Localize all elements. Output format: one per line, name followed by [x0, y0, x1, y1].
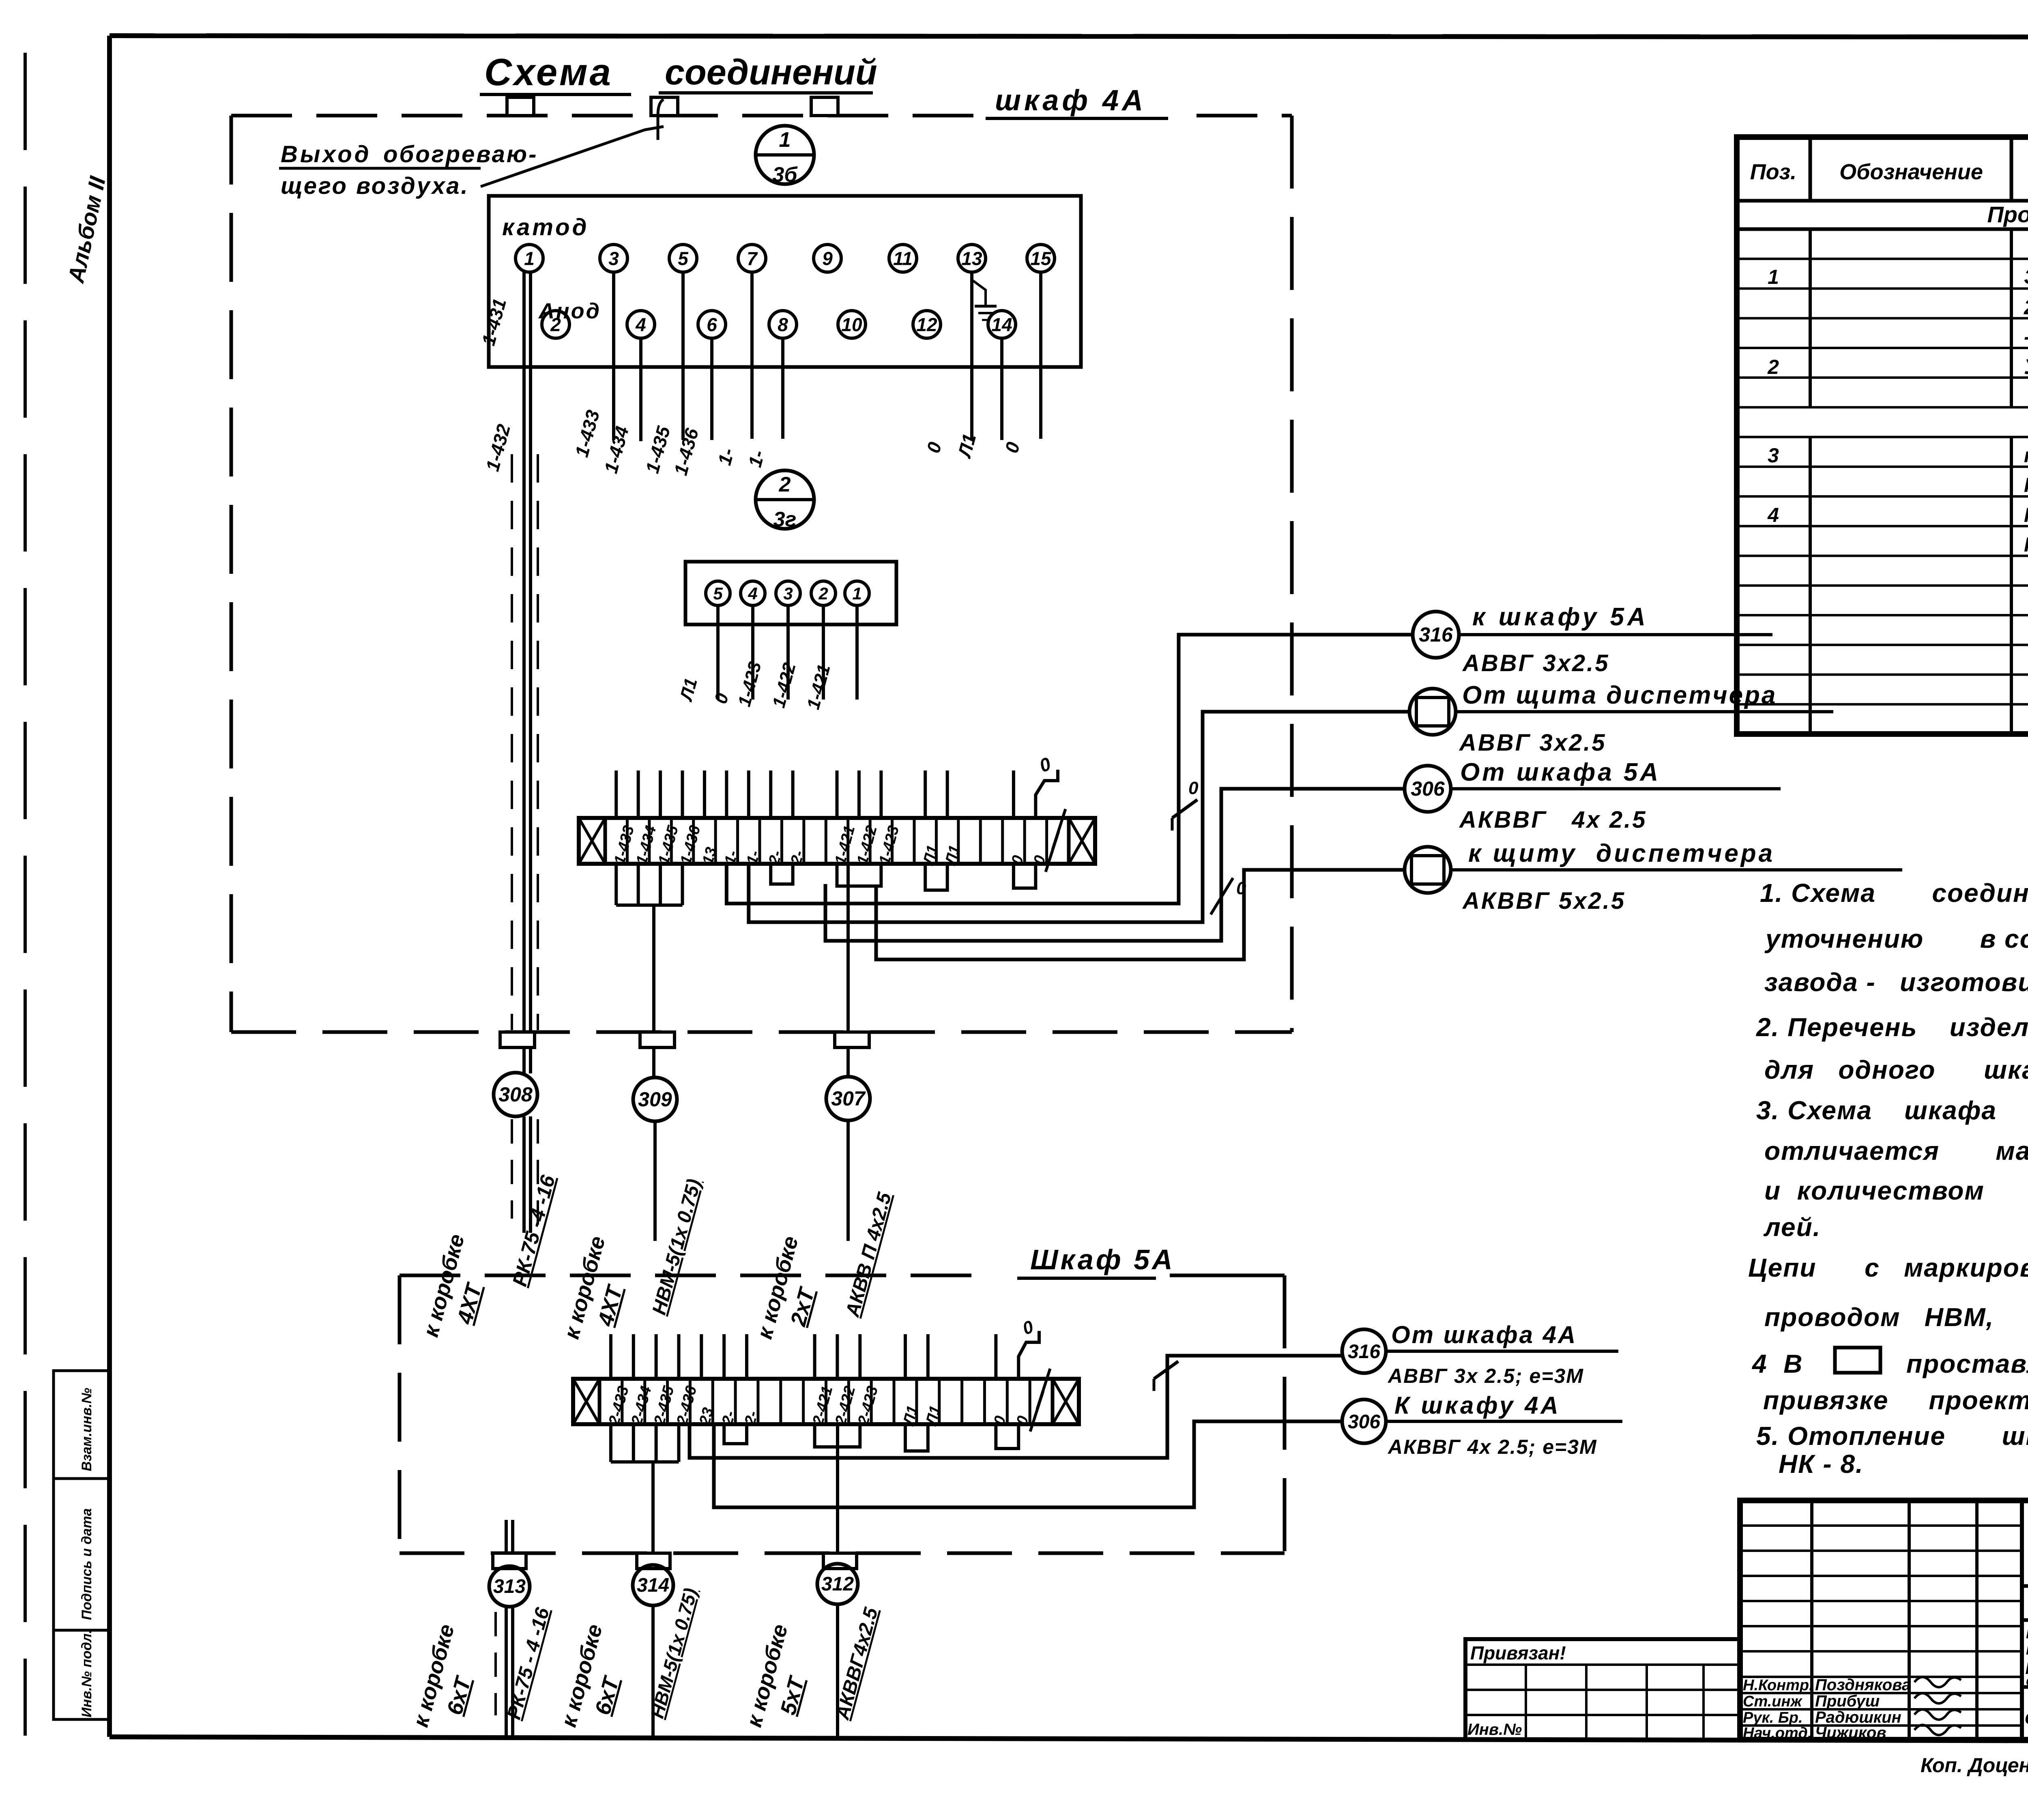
title block outline — [1740, 1500, 2028, 1740]
svg-text:8: 8 — [778, 314, 788, 335]
svg-text:Л1: Л1 — [676, 676, 701, 704]
svg-text:ра 6х4.6 х36 м и вторичных: ра 6х4.6 х36 м и вторичных — [2026, 1657, 2028, 1674]
svg-text:5: 5 — [678, 248, 689, 269]
svg-text:1. Схема соединений: 1. Схема соединений кислородомера подлеж… — [1760, 878, 2028, 908]
svg-text:2-421: 2-421 — [809, 1384, 836, 1427]
svg-text:1: 1 — [524, 248, 535, 269]
terminal pin 14 — [988, 311, 1016, 338]
svg-text:привязке проекта.: привязке проекта. — [1763, 1386, 2028, 1415]
label катод — [502, 214, 589, 240]
terminal pin 6 — [698, 311, 726, 338]
table row: 25 шт. ЗН23-4П25 — [2024, 296, 2028, 319]
note line — [1764, 924, 2028, 953]
terminal pin 9 — [814, 245, 841, 272]
wire from pin at x=2470 — [1000, 338, 1003, 440]
svg-text:К шкафу 4А: К шкафу 4А — [1394, 1392, 1561, 1419]
svg-text:13: 13 — [961, 248, 982, 269]
terminal pin 7 — [738, 245, 766, 272]
wire to cable 307 — [846, 864, 850, 1077]
svg-text:1: 1 — [1768, 266, 1779, 288]
cable 308 destination marking — [419, 1172, 560, 1339]
cable exit tab (bottom of 5A) — [493, 1553, 526, 1569]
note line — [1764, 1055, 2028, 1084]
signature rows — [1743, 1676, 1961, 1742]
wire from pin at x=2566 — [1039, 272, 1042, 439]
svg-text:Подпись и дата: Подпись и дата — [79, 1508, 95, 1620]
svg-text:3г: 3г — [773, 508, 797, 531]
wire marking 1-422 — [769, 661, 800, 710]
svg-text:1-433: 1-433 — [571, 408, 604, 459]
cable exit tab (bottom of 4A) — [500, 1032, 535, 1047]
wire stub above strip 5A — [926, 1334, 930, 1379]
terminal strip of cabinet 5A — [573, 1379, 1079, 1428]
svg-text:313: 313 — [493, 1576, 526, 1597]
note line — [1763, 1213, 1821, 1242]
svg-text:0: 0 — [1001, 440, 1024, 455]
terminal pin 13 — [958, 245, 986, 272]
svg-text:1-436: 1-436 — [670, 426, 702, 478]
cable 316 callout (5A side) — [1342, 1321, 1618, 1387]
cable 308 circle — [494, 1073, 537, 1116]
svg-text:306: 306 — [1348, 1411, 1380, 1433]
svg-text:РК-75 -4 -16: РК-75 -4 -16 — [508, 1172, 560, 1289]
svg-text:1-435: 1-435 — [641, 423, 674, 475]
wire stub above strip — [946, 770, 949, 818]
svg-text:2: 2 — [818, 584, 828, 603]
cable 313 circle — [489, 1566, 530, 1607]
wire marking 1-435 — [641, 423, 674, 475]
svg-text:316: 316 — [1348, 1341, 1380, 1363]
svg-text:1-421: 1-421 — [803, 662, 834, 711]
wire stub above strip 5A — [904, 1334, 907, 1379]
svg-text:лей.: лей. — [1763, 1213, 1821, 1242]
wire from pin at x=1930 — [781, 338, 784, 439]
wire from pin at x=1854 — [750, 272, 754, 439]
svg-text:Выход: Выход — [281, 141, 372, 167]
svg-text:и количеством отходящих: и количеством отходящих кабе - — [1764, 1176, 2028, 1205]
break symbol on strip 5A — [1030, 1369, 1050, 1432]
svg-text:провод ПВЗ 1х1,0 380В: провод ПВЗ 1х1,0 380В — [2024, 444, 2028, 467]
jumper loop 2- cells — [771, 864, 793, 884]
wire stub above strip 5A — [700, 1334, 703, 1379]
wire run to cable 306 (5A) — [714, 1421, 1342, 1507]
connector pin 4 — [741, 581, 765, 605]
svg-text:к щиту диспетчера: к щиту диспетчера — [1468, 839, 1775, 867]
svg-text:НВМ-5(1х 0.75): НВМ-5(1х 0.75) — [648, 1177, 705, 1317]
terminal pin 4 — [627, 311, 655, 338]
svg-text:312: 312 — [821, 1573, 854, 1595]
svg-text:2: 2 — [1767, 356, 1779, 378]
cabinet Шкаф 5А dashed enclosure — [400, 1275, 1285, 1553]
svg-text:Позднякова: Позднякова — [1815, 1676, 1911, 1694]
cabinet шкаф 4А dashed enclosure — [231, 116, 1292, 1032]
cable 312 circle — [817, 1564, 858, 1604]
svg-text:2: 2 — [779, 473, 791, 496]
wire stub above strip 5A — [745, 1334, 748, 1379]
cabinet 5A label — [1017, 1244, 1175, 1278]
wire stub above strip — [614, 770, 618, 818]
svg-text:5. Отопление шкафов: 5. Отопление шкафов КИП см. лист — [1756, 1421, 2028, 1451]
svg-text:АКВВГ 4х 2.5; е=3М: АКВВГ 4х 2.5; е=3М — [1387, 1436, 1597, 1458]
svg-text:Схема: Схема — [484, 51, 613, 93]
note line — [1764, 1136, 2028, 1165]
object description — [2026, 1625, 2028, 1689]
bent wire with 0 marking above strip 5A — [1018, 1317, 1039, 1379]
svg-text:4ХТ: 4ХТ — [452, 1280, 487, 1327]
wire from connector pin 4 — [751, 605, 754, 700]
wire stub above strip — [747, 770, 750, 818]
svg-text:5хТ: 5хТ — [776, 1673, 810, 1717]
wire stub above strip 5A — [722, 1334, 726, 1379]
terminal pin 1 — [516, 245, 543, 272]
cable 313 destination marking — [408, 1605, 554, 1730]
svg-text:0: 0 — [1188, 778, 1199, 798]
connector box 2 — [685, 562, 896, 625]
cable exit tab (bottom of 5A) — [823, 1553, 857, 1569]
svg-text:2: 2 — [550, 314, 561, 335]
wire from pin at x=1513 — [612, 272, 615, 440]
svg-text:тенков с размерами коридо-: тенков с размерами коридо- — [2026, 1641, 2028, 1658]
svg-text:3б: 3б — [772, 163, 798, 187]
svg-text:10: 10 — [841, 314, 862, 335]
terminal strip of cabinet 4A — [579, 818, 1095, 867]
wire stub above strip — [924, 770, 927, 818]
svg-text:6хТ: 6хТ — [591, 1673, 624, 1717]
svg-text:От шкафа 5А: От шкафа 5А — [1460, 758, 1661, 786]
svg-text:4 В: 4 В — [1751, 1349, 1803, 1378]
svg-text:НК - 8.: НК - 8. — [1779, 1449, 1864, 1479]
svg-text:схема электрическая: схема электрическая — [2025, 1706, 2028, 1728]
cable 314 circle — [633, 1565, 673, 1605]
svg-text:АКВВГ 5х2.5: АКВВГ 5х2.5 — [1462, 888, 1626, 914]
svg-text:0: 0 — [922, 440, 945, 455]
svg-text:обогреваю-: обогреваю- — [383, 141, 538, 167]
wire stub above strip — [836, 770, 839, 818]
svg-text:4: 4 — [635, 314, 646, 335]
wire marking 1-423 — [734, 659, 765, 708]
svg-text:От шкафа 4А: От шкафа 4А — [1391, 1321, 1577, 1348]
svg-text:316: 316 — [1419, 623, 1453, 646]
cable exit tab (bottom of 5A) — [637, 1553, 670, 1569]
bus under cells 1-433..1-436 — [616, 864, 682, 905]
wire marking 1-433 — [571, 408, 604, 459]
wire stub above strip 5A — [609, 1334, 612, 1379]
svg-text:14: 14 — [991, 314, 1012, 335]
wire stub above strip 5A — [813, 1334, 816, 1379]
cable 314 wire below — [651, 1605, 655, 1740]
label Анод — [538, 299, 601, 323]
cable 307 circle — [826, 1077, 870, 1120]
wire stub above strip 5A — [994, 1334, 997, 1379]
jumper loop Л1 — [925, 864, 947, 890]
leader line to tab 2 — [481, 99, 664, 187]
note: Выход обогревающего воздуха — [279, 141, 538, 199]
cable 306 callout — [1405, 758, 1781, 833]
cable 313 wire below — [496, 1607, 513, 1740]
svg-text:2-433: 2-433 — [606, 1384, 632, 1427]
terminal pin 10 — [838, 311, 866, 338]
cable 309 circle — [633, 1077, 677, 1121]
svg-text:Провод НВМ 1х 0.75: Провод НВМ 1х 0.75 — [2024, 504, 2028, 526]
svg-text:Шкаф 5А: Шкаф 5А — [1030, 1244, 1175, 1275]
table row 4: Провод НВМ — [1767, 504, 2028, 526]
svg-text:1-: 1- — [713, 446, 738, 468]
note line — [1906, 1349, 2028, 1378]
wire stub above strip — [725, 770, 728, 818]
svg-text:1-431: 1-431 — [477, 296, 510, 348]
svg-text:шкаф 4А: шкаф 4А — [995, 84, 1146, 117]
svg-text:ГОСТ 6323 - 79: ГОСТ 6323 - 79 — [2024, 474, 2028, 496]
sheet name шкафы 4А,5А — [2025, 1688, 2028, 1743]
wire stub above strip — [659, 770, 662, 818]
cable 312 destination marking — [742, 1605, 883, 1730]
svg-text:Альбом II: Альбом II — [63, 174, 111, 285]
wire stub above strip — [879, 770, 883, 818]
svg-text:Взам.инв.№: Взам.инв.№ — [79, 1388, 95, 1471]
table headers — [1750, 150, 2028, 194]
wire marking 1- — [744, 448, 769, 470]
svg-text:7: 7 — [747, 248, 758, 269]
cable entry tab (top,3) — [811, 97, 838, 116]
svg-text:1-434: 1-434 — [600, 424, 633, 475]
wire stub above strip — [703, 770, 706, 818]
svg-text:к шкафу 5А: к шкафу 5А — [1472, 603, 1649, 631]
svg-text:РК-75 - 4 -16: РК-75 - 4 -16 — [503, 1605, 554, 1722]
wire from pin at x=1684 — [681, 272, 685, 440]
svg-text:Чижиков: Чижиков — [1815, 1724, 1886, 1742]
svg-text:проводом НВМ, остальные: проводом НВМ, остальные — проводом ПВЗ. — [1764, 1303, 2028, 1332]
wire marking 1-432 — [481, 422, 514, 474]
table row: ГОСТ 17515-72 — [2024, 533, 2028, 556]
svg-text:0: 0 — [711, 691, 733, 706]
wire stub above strip 5A — [655, 1334, 658, 1379]
svg-text:2-434: 2-434 — [628, 1384, 655, 1427]
svg-text:9: 9 — [822, 248, 833, 269]
svg-text:306: 306 — [1411, 777, 1445, 800]
jumper loop 1-421/1-423 — [837, 864, 881, 886]
svg-text:Обозначение: Обозначение — [1839, 160, 1983, 184]
annotation Коп. Доценко — [1921, 1754, 2028, 1777]
wire run to щит cable (АВВГ 3х2.5) — [749, 712, 1409, 922]
cable entry tab (top,1) — [507, 97, 534, 116]
svg-text:АВВГ 3х 2.5; е=3М: АВВГ 3х 2.5; е=3М — [1387, 1365, 1584, 1387]
svg-text:АКВВГ 4х 2.5: АКВВГ 4х 2.5 — [1459, 807, 1647, 833]
wire stub above strip — [637, 770, 640, 818]
switch symbol on strip 5A — [1154, 1361, 1178, 1391]
svg-text:Упор: Упор — [2024, 355, 2028, 379]
table section: Прочие изделия — [1987, 202, 2028, 227]
svg-text:Привязан!: Привязан! — [1470, 1642, 1566, 1663]
wire marking 1-421 — [803, 662, 834, 711]
cable callout к щиту диспетчера — [1405, 839, 1902, 914]
wire to cable 312 — [836, 1424, 839, 1553]
wire marking 0 — [711, 691, 733, 706]
svg-text:проставляется номер кабел: проставляется номер кабеля при — [1906, 1349, 2028, 1378]
note line — [1751, 1349, 1803, 1378]
wire stub inside 5A for cable 313 — [506, 1520, 513, 1553]
wire stub above strip 5A — [858, 1334, 861, 1379]
jumper loop 0 (5A) — [996, 1424, 1018, 1449]
svg-text:Рук. Бр.: Рук. Бр. — [1743, 1709, 1803, 1726]
wire run to cable 316 (5A) — [690, 1356, 1342, 1458]
table row 2: Упор — [1767, 355, 2028, 379]
jumper loop 2- cells (5A) — [724, 1424, 747, 1444]
wire run to щит cable (АКВВГ 5х2.5) — [876, 870, 1405, 959]
svg-text:3: 3 — [608, 248, 619, 269]
svg-text:2хТ: 2хТ — [786, 1284, 819, 1329]
table row 3: провод ПВЗ — [1768, 444, 2028, 467]
svg-text:Коп. Доценко: Коп. Доценко — [1921, 1754, 2028, 1777]
wire marking 0 — [1001, 440, 1024, 455]
note line — [1756, 1096, 2028, 1125]
svg-text:0: 0 — [1236, 878, 1246, 898]
terminal pin 12 — [913, 311, 941, 338]
svg-text:От щита диспетчера: От щита диспетчера — [1462, 681, 1777, 709]
parts list table — [1737, 137, 2028, 734]
wire from pin at x=1755 — [710, 338, 713, 440]
wire marking 0 with slash on run — [1211, 878, 1246, 914]
cable number placeholder rectangle in note 4 — [1835, 1348, 1880, 1373]
wire from connector pin 3 — [786, 605, 790, 700]
wire marking 1- — [713, 446, 738, 468]
wire run to cable 306 — [825, 789, 1405, 941]
svg-text:щего воздуха.: щего воздуха. — [281, 173, 469, 199]
terminal pin 5 — [669, 245, 697, 272]
svg-text:1-432: 1-432 — [481, 422, 514, 474]
wire marking 1-431 — [477, 296, 510, 348]
wire from connector pin 2 — [822, 605, 825, 700]
svg-text:309: 309 — [638, 1088, 672, 1111]
terminal pin 3 — [600, 245, 627, 272]
wire stub above strip — [1012, 770, 1015, 818]
jumper loop 0 — [1014, 864, 1035, 888]
svg-text:уточнению в соответствии: уточнению в соответствии с инструкцией — [1764, 924, 2028, 953]
wire marking Л1 — [954, 431, 980, 461]
wire from connector pin 1 — [855, 605, 859, 700]
svg-text:308: 308 — [498, 1083, 533, 1106]
svg-text:2-423: 2-423 — [855, 1384, 881, 1427]
drawing title: Схема соединений — [480, 51, 877, 94]
note line — [1748, 1253, 2028, 1282]
cable entry tab (top,2) — [651, 97, 678, 116]
cable 307 destination marking — [752, 1190, 896, 1341]
svg-text:ГОСТ 17 515 - 72: ГОСТ 17 515 - 72 — [2024, 533, 2028, 556]
cable 307 wire below — [846, 1120, 850, 1241]
margin label: Альбом II — [63, 174, 111, 285]
svg-text:отстойников (2 секции): отстойников (2 секции) — [2026, 1672, 2028, 1689]
table row: ГОСТ 6323-79 — [2024, 474, 2028, 496]
wire stub above strip 5A — [677, 1334, 680, 1379]
wire stub above strip 5A — [632, 1334, 635, 1379]
svg-text:Цепи с маркировками 43: Цепи с маркировками 433 ÷ 437 монтируютс… — [1748, 1253, 2028, 1282]
cabinet 4A label — [986, 84, 1168, 118]
left margin fold line — [24, 53, 27, 1736]
reference circle 2/3г — [756, 470, 814, 531]
terminal pin 2 — [542, 311, 569, 338]
svg-text:Ст.инж: Ст.инж — [1743, 1693, 1802, 1710]
connector pin 2 — [811, 581, 836, 605]
terminal pin 8 — [769, 311, 797, 338]
connector pin 3 — [776, 581, 800, 605]
svg-text:2-422: 2-422 — [832, 1384, 859, 1427]
svg-text:307: 307 — [831, 1087, 866, 1110]
wire stub above strip — [857, 770, 861, 818]
svg-text:Зажим наборный на: Зажим наборный на — [2024, 265, 2028, 289]
svg-text:Н.Контр.: Н.Контр. — [1743, 1677, 1813, 1694]
wire from pin at x=1580 — [639, 338, 642, 441]
wire stub above strip — [681, 770, 684, 818]
svg-text:1: 1 — [779, 128, 791, 152]
table row: -Д/Д УЗ — [2024, 325, 2028, 349]
svg-text:314: 314 — [637, 1575, 669, 1596]
svg-text:11: 11 — [893, 248, 913, 269]
svg-text:1: 1 — [852, 584, 861, 603]
table row 1: Зажим наборный — [1768, 265, 2028, 289]
wire to cable 309 — [652, 905, 655, 1078]
note line — [1760, 878, 2028, 908]
jumper loop 2-421/2-423 — [815, 1424, 860, 1447]
note line — [1756, 1013, 2028, 1042]
svg-text:4: 4 — [748, 584, 757, 603]
jumper loop Л1 (5A) — [905, 1424, 928, 1451]
svg-text:АКВВ П 4х2.5: АКВВ П 4х2.5 — [842, 1190, 896, 1320]
svg-text:Поз.: Поз. — [1750, 160, 1796, 184]
wire to cable 314 — [651, 1462, 655, 1553]
cable 306 callout (5A side) — [1342, 1392, 1622, 1458]
svg-text:катод: катод — [502, 214, 589, 240]
cable 316 callout — [1413, 603, 1772, 676]
svg-text:12: 12 — [916, 314, 937, 335]
note line — [1763, 1386, 2028, 1415]
cable 309 destination marking — [559, 1177, 705, 1341]
wire pair from pin 1 (coax) — [512, 272, 538, 1073]
cable exit tab (bottom of 4A) — [835, 1032, 869, 1047]
wire marking 1-436 — [670, 426, 702, 478]
bus under cells 2-433..2-436 — [611, 1424, 679, 1462]
svg-text:1-423: 1-423 — [734, 659, 765, 708]
wire marking 1-434 — [600, 424, 633, 475]
svg-text:4: 4 — [1767, 504, 1779, 526]
svg-text:АВВГ 3х2.5: АВВГ 3х2.5 — [1459, 730, 1607, 756]
connector pin 1 — [845, 581, 869, 605]
svg-text:5: 5 — [713, 584, 723, 603]
svg-text:Прочие изделия: Прочие изделия — [1987, 202, 2028, 227]
terminal box (катод/анод) — [489, 196, 1081, 367]
svg-text:Инв.№: Инв.№ — [1467, 1721, 1522, 1738]
svg-text:0: 0 — [1020, 1317, 1036, 1339]
svg-text:соединений: соединений — [665, 52, 877, 92]
svg-text:Блок двухкоридорных аэро-: Блок двухкоридорных аэро- — [2026, 1625, 2028, 1642]
connector pin 5 — [706, 581, 730, 605]
wire stub above strip — [791, 770, 795, 818]
wire marking Л1 — [676, 676, 701, 704]
terminal pin 11 — [889, 245, 917, 272]
ground symbol at pin 13 — [972, 280, 997, 320]
reference circle 1/3б — [756, 126, 814, 187]
note line — [1764, 1303, 2028, 1332]
bent wire with 0 marking above strip — [1035, 753, 1058, 818]
cable 308 wire below — [512, 1116, 538, 1233]
title block left extension — [1465, 1639, 1740, 1740]
svg-text:Л1: Л1 — [954, 431, 980, 461]
svg-text:3: 3 — [1768, 444, 1779, 467]
svg-text:15: 15 — [1030, 248, 1052, 269]
wire run to cable 316 — [726, 635, 1413, 904]
svg-text:6хТ: 6хТ — [443, 1673, 476, 1717]
wire marking 0 — [922, 440, 945, 455]
svg-text:3: 3 — [783, 584, 793, 603]
wire from connector pin 5 — [716, 605, 720, 700]
